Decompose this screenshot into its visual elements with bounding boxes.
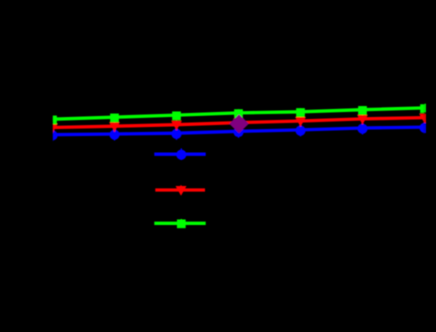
right edge green error bar (outside clip) (424, 104, 426, 113)
legend blue entry (154, 148, 205, 160)
purple diamond marker (229, 114, 249, 133)
green square markers (48, 104, 429, 124)
right edge red error bar (outside clip) (424, 114, 426, 123)
legend green entry (154, 219, 205, 228)
green series line (53, 108, 425, 119)
legend red entry (155, 185, 205, 195)
red series error bars (53, 114, 425, 133)
right edge blue error bar (outside clip) (424, 121, 426, 133)
red series line (53, 118, 425, 128)
green series error bars (53, 104, 425, 124)
blue series error bars (53, 122, 425, 141)
blue series line (53, 127, 425, 135)
red triangle markers (47, 114, 430, 134)
blue circle markers (47, 123, 429, 141)
